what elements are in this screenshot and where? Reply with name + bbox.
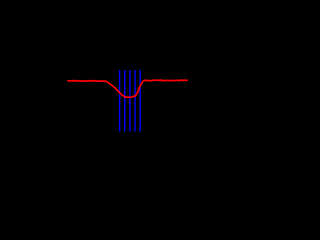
blue marker line 1 xyxy=(119,70,121,132)
blue marker line 3 xyxy=(129,70,131,132)
blue marker line 2 xyxy=(124,70,126,132)
red absorption dip curve xyxy=(68,80,187,97)
blue marker line 4 xyxy=(134,70,136,132)
blue marker line 5 xyxy=(139,70,141,132)
